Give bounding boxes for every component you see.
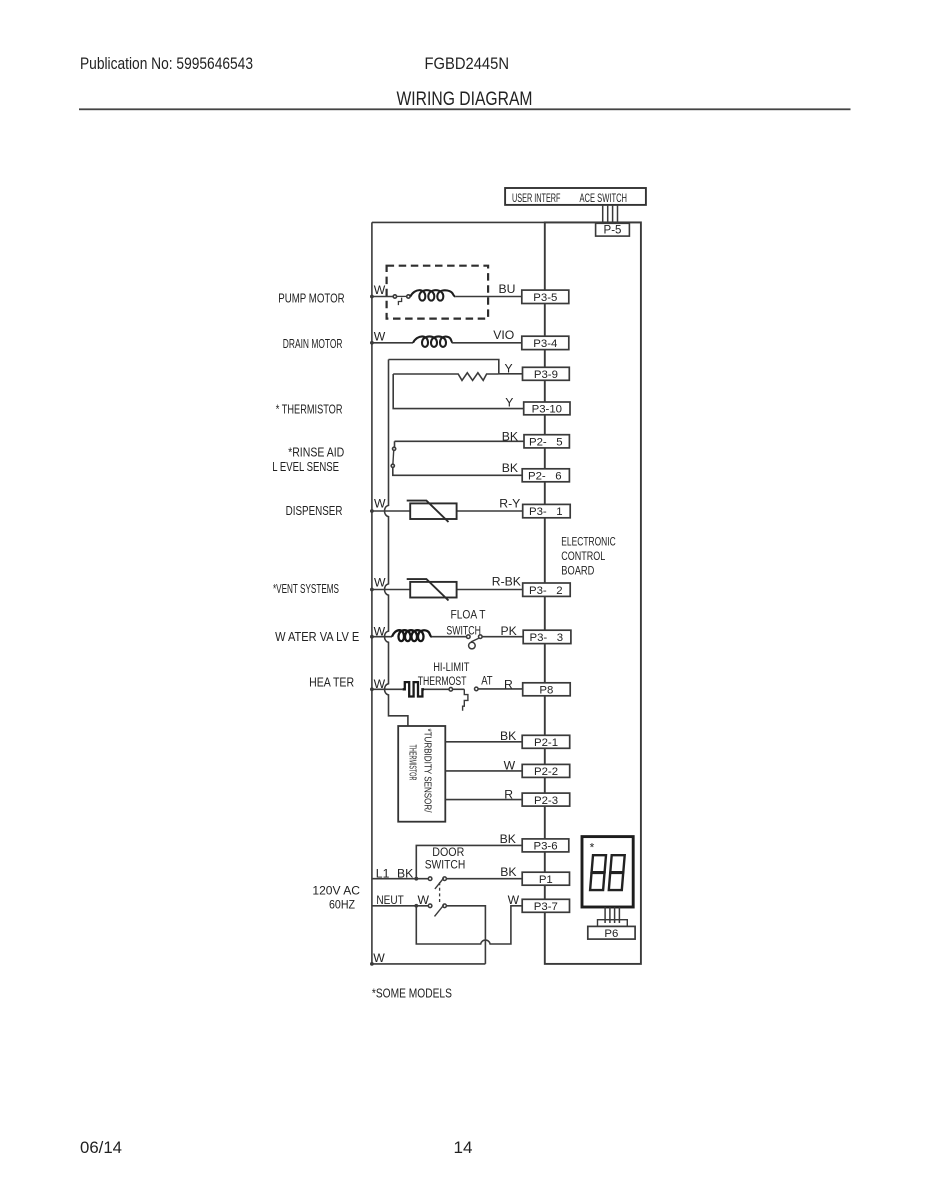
svg-text:SWITCH: SWITCH xyxy=(446,624,481,638)
svg-text:ACE SWITCH: ACE SWITCH xyxy=(580,191,628,205)
svg-text:L1: L1 xyxy=(376,867,390,881)
svg-text:120V AC: 120V AC xyxy=(312,883,360,897)
vent actuator xyxy=(407,579,457,600)
wire: turbidity BK xyxy=(445,741,522,743)
wire: NEUT line xyxy=(372,905,429,907)
svg-text:THERMOST: THERMOST xyxy=(418,674,467,688)
connector P3-3 xyxy=(523,630,571,644)
svg-text:R-BK: R-BK xyxy=(492,574,521,588)
wire: vent feed xyxy=(372,589,523,591)
connector P3-5 xyxy=(522,290,569,304)
svg-text:*SOME MODELS: *SOME MODELS xyxy=(372,987,452,1001)
connector pins to P-5 xyxy=(603,205,618,223)
svg-text:P6: P6 xyxy=(604,928,618,940)
svg-text:*: * xyxy=(590,841,595,855)
node: P3-6 tap on L1 xyxy=(414,877,418,881)
connector P3-7 xyxy=(522,899,569,913)
connector P3-2 xyxy=(523,583,571,597)
svg-text:*TURBIDITY SENSOR/: *TURBIDITY SENSOR/ xyxy=(422,729,433,813)
user interface switch box U.I. xyxy=(505,188,646,205)
svg-text:60HZ: 60HZ xyxy=(329,897,355,911)
svg-text:P3-3: P3-3 xyxy=(530,632,564,644)
svg-text:DISPENSER: DISPENSER xyxy=(286,504,343,518)
svg-text:P3-2: P3-2 xyxy=(529,585,563,597)
svg-text:HI-LIMIT: HI-LIMIT xyxy=(433,660,470,674)
rinse aid level sense switch xyxy=(391,441,524,475)
svg-text:*VENT SYSTEMS: *VENT SYSTEMS xyxy=(273,582,339,596)
door switch L1 contacts xyxy=(428,877,446,917)
svg-text:THERMISTOR: THERMISTOR xyxy=(407,745,418,781)
svg-text:PK: PK xyxy=(501,624,517,638)
display pins xyxy=(605,907,619,923)
svg-text:P3-9: P3-9 xyxy=(534,369,558,381)
turbidity sensor box xyxy=(398,726,445,822)
svg-text:W: W xyxy=(374,576,386,590)
hi-limit thermostat contacts xyxy=(449,687,478,711)
connector P2-6 xyxy=(522,469,569,483)
svg-text:14: 14 xyxy=(454,1138,473,1157)
svg-text:P1: P1 xyxy=(539,874,553,886)
connector P2-1 xyxy=(522,735,570,749)
svg-text:PUMP MOTOR: PUMP MOTOR xyxy=(278,291,344,305)
wire: water valve feed xyxy=(372,636,523,638)
wire: bottom W return wire xyxy=(372,963,486,965)
svg-text:R-Y: R-Y xyxy=(499,497,520,511)
connector P3-1 xyxy=(523,504,571,518)
wire: NEUT to P3-7 loop with hop xyxy=(416,906,522,944)
svg-text:P3-7: P3-7 xyxy=(534,901,558,913)
svg-text:BK: BK xyxy=(397,867,413,881)
node: dispenser tap xyxy=(370,509,374,513)
svg-text:W ATER VA LV E: W ATER VA LV E xyxy=(275,630,359,644)
svg-text:BK: BK xyxy=(500,729,516,743)
svg-text:P3-4: P3-4 xyxy=(533,338,557,350)
svg-text:P2-5: P2-5 xyxy=(529,437,563,449)
connector P3-6 xyxy=(522,839,569,853)
door switch link dashed xyxy=(439,882,441,903)
resistor thermistor element xyxy=(393,373,499,381)
wire: dispenser feed xyxy=(372,510,523,512)
svg-text:BK: BK xyxy=(502,429,518,443)
svg-text:SWITCH: SWITCH xyxy=(425,857,466,871)
wire: thermistor leg to P3-9 xyxy=(499,373,523,375)
svg-text:USER INTERF: USER INTERF xyxy=(512,191,561,205)
wire: coil to P3-5 xyxy=(455,296,522,298)
svg-text:P-5: P-5 xyxy=(604,225,622,237)
svg-text:WIRING DIAGRAM: WIRING DIAGRAM xyxy=(397,89,533,110)
wire: NEUT switched to bottom xyxy=(446,906,485,964)
display connector pedestal xyxy=(598,920,628,927)
svg-text:W: W xyxy=(374,677,386,691)
seven segment digit 1 xyxy=(590,855,606,890)
pump thermal protector hook xyxy=(398,298,401,306)
svg-text:* THERMISTOR: * THERMISTOR xyxy=(276,402,343,416)
svg-text:W: W xyxy=(504,758,516,772)
svg-text:ELECTRONIC: ELECTRONIC xyxy=(561,534,616,548)
svg-text:P2-3: P2-3 xyxy=(534,795,558,807)
title underline xyxy=(79,108,851,110)
svg-text:P2-6: P2-6 xyxy=(528,471,562,483)
heater element xyxy=(403,682,424,696)
door switch NEUT contacts xyxy=(428,904,432,908)
svg-text:AT: AT xyxy=(481,674,493,688)
display module box xyxy=(582,837,633,907)
svg-text:06/14: 06/14 xyxy=(80,1138,122,1157)
svg-text:P2-2: P2-2 xyxy=(534,766,558,778)
wire: left W rail xyxy=(371,222,373,964)
water valve solenoid coil xyxy=(392,630,432,641)
svg-text:W: W xyxy=(418,893,430,907)
node: drain tap on W rail xyxy=(370,341,374,345)
electronic control board box xyxy=(545,222,641,964)
label electronic control board xyxy=(561,534,616,577)
svg-text:W: W xyxy=(374,625,386,639)
float switch contacts xyxy=(467,635,483,649)
svg-text:BU: BU xyxy=(499,282,516,296)
branch rail with crossover hops xyxy=(385,360,408,727)
thermostat actuator staircase xyxy=(463,689,468,710)
dispenser actuator xyxy=(407,501,457,522)
connector P-5 xyxy=(596,223,630,236)
svg-text:VIO: VIO xyxy=(493,328,514,342)
node: pump tap on W rail xyxy=(370,295,374,299)
svg-text:BK: BK xyxy=(502,461,518,475)
svg-text:W: W xyxy=(373,951,385,965)
svg-text:BK: BK xyxy=(500,832,516,846)
svg-text:W: W xyxy=(374,329,386,343)
connector P2-3 xyxy=(522,793,570,807)
svg-text:HEA TER: HEA TER xyxy=(309,676,354,690)
svg-text:P2-1: P2-1 xyxy=(534,737,558,749)
svg-text:Y: Y xyxy=(505,396,513,410)
svg-text:L EVEL SENSE: L EVEL SENSE xyxy=(272,460,339,474)
node: P3-7 tap on NEUT xyxy=(414,904,418,908)
svg-text:FLOA T: FLOA T xyxy=(451,608,486,622)
wire: diagram top edge xyxy=(372,221,641,223)
connector P8 xyxy=(523,683,571,697)
svg-text:P3-5: P3-5 xyxy=(533,292,557,304)
svg-text:Publication No: 5995646543: Publication No: 5995646543 xyxy=(80,54,253,73)
svg-text:*RINSE AID: *RINSE AID xyxy=(288,445,344,459)
wire: thermistor bypass top xyxy=(385,360,524,727)
wire: L1 line xyxy=(372,878,429,880)
wire: turbidity R xyxy=(445,799,522,801)
connector P6 xyxy=(588,926,635,940)
connector P3-10 xyxy=(524,402,570,415)
connector P2-5 xyxy=(524,435,569,449)
node: vent tap xyxy=(370,588,374,592)
svg-text:BK: BK xyxy=(500,865,516,879)
svg-text:W: W xyxy=(508,893,520,907)
connector P3-4 xyxy=(522,336,569,350)
connector P2-2 xyxy=(522,764,570,778)
pump motor dashed enclosure xyxy=(387,266,489,319)
svg-text:P3-6: P3-6 xyxy=(533,841,557,853)
svg-text:Y: Y xyxy=(505,361,513,375)
connector P3-9 xyxy=(523,367,570,381)
svg-text:R: R xyxy=(504,787,513,801)
wire: heater feed xyxy=(372,688,523,690)
svg-text:W: W xyxy=(374,497,386,511)
pump motor winding coil xyxy=(410,290,455,301)
svg-text:NEUT: NEUT xyxy=(376,893,404,907)
wire: pump motor feed xyxy=(372,295,522,305)
pump switch contacts xyxy=(393,295,396,298)
connector P1 xyxy=(522,872,569,886)
wire: door switch to P3-6 xyxy=(372,845,522,964)
svg-text:P3-1: P3-1 xyxy=(529,506,563,518)
svg-text:R: R xyxy=(504,677,513,691)
wire: turbidity W xyxy=(445,770,522,772)
svg-text:P8: P8 xyxy=(539,685,553,697)
wire: thermistor leg to P3-10 xyxy=(393,374,524,409)
wire: drain motor feed xyxy=(372,342,522,344)
svg-text:CONTROL: CONTROL xyxy=(561,549,605,563)
node: valve tap xyxy=(370,635,374,639)
svg-text:P3-10: P3-10 xyxy=(532,403,562,415)
drain motor winding coil xyxy=(413,336,453,347)
svg-text:BOARD: BOARD xyxy=(561,563,594,577)
node: bottom left corner xyxy=(370,962,374,966)
svg-text:FGBD2445N: FGBD2445N xyxy=(425,54,510,73)
svg-text:DRAIN MOTOR: DRAIN MOTOR xyxy=(283,337,343,351)
node: heater tap xyxy=(370,687,374,691)
svg-text:W: W xyxy=(374,283,386,297)
seven segment digit 2 xyxy=(609,855,625,890)
